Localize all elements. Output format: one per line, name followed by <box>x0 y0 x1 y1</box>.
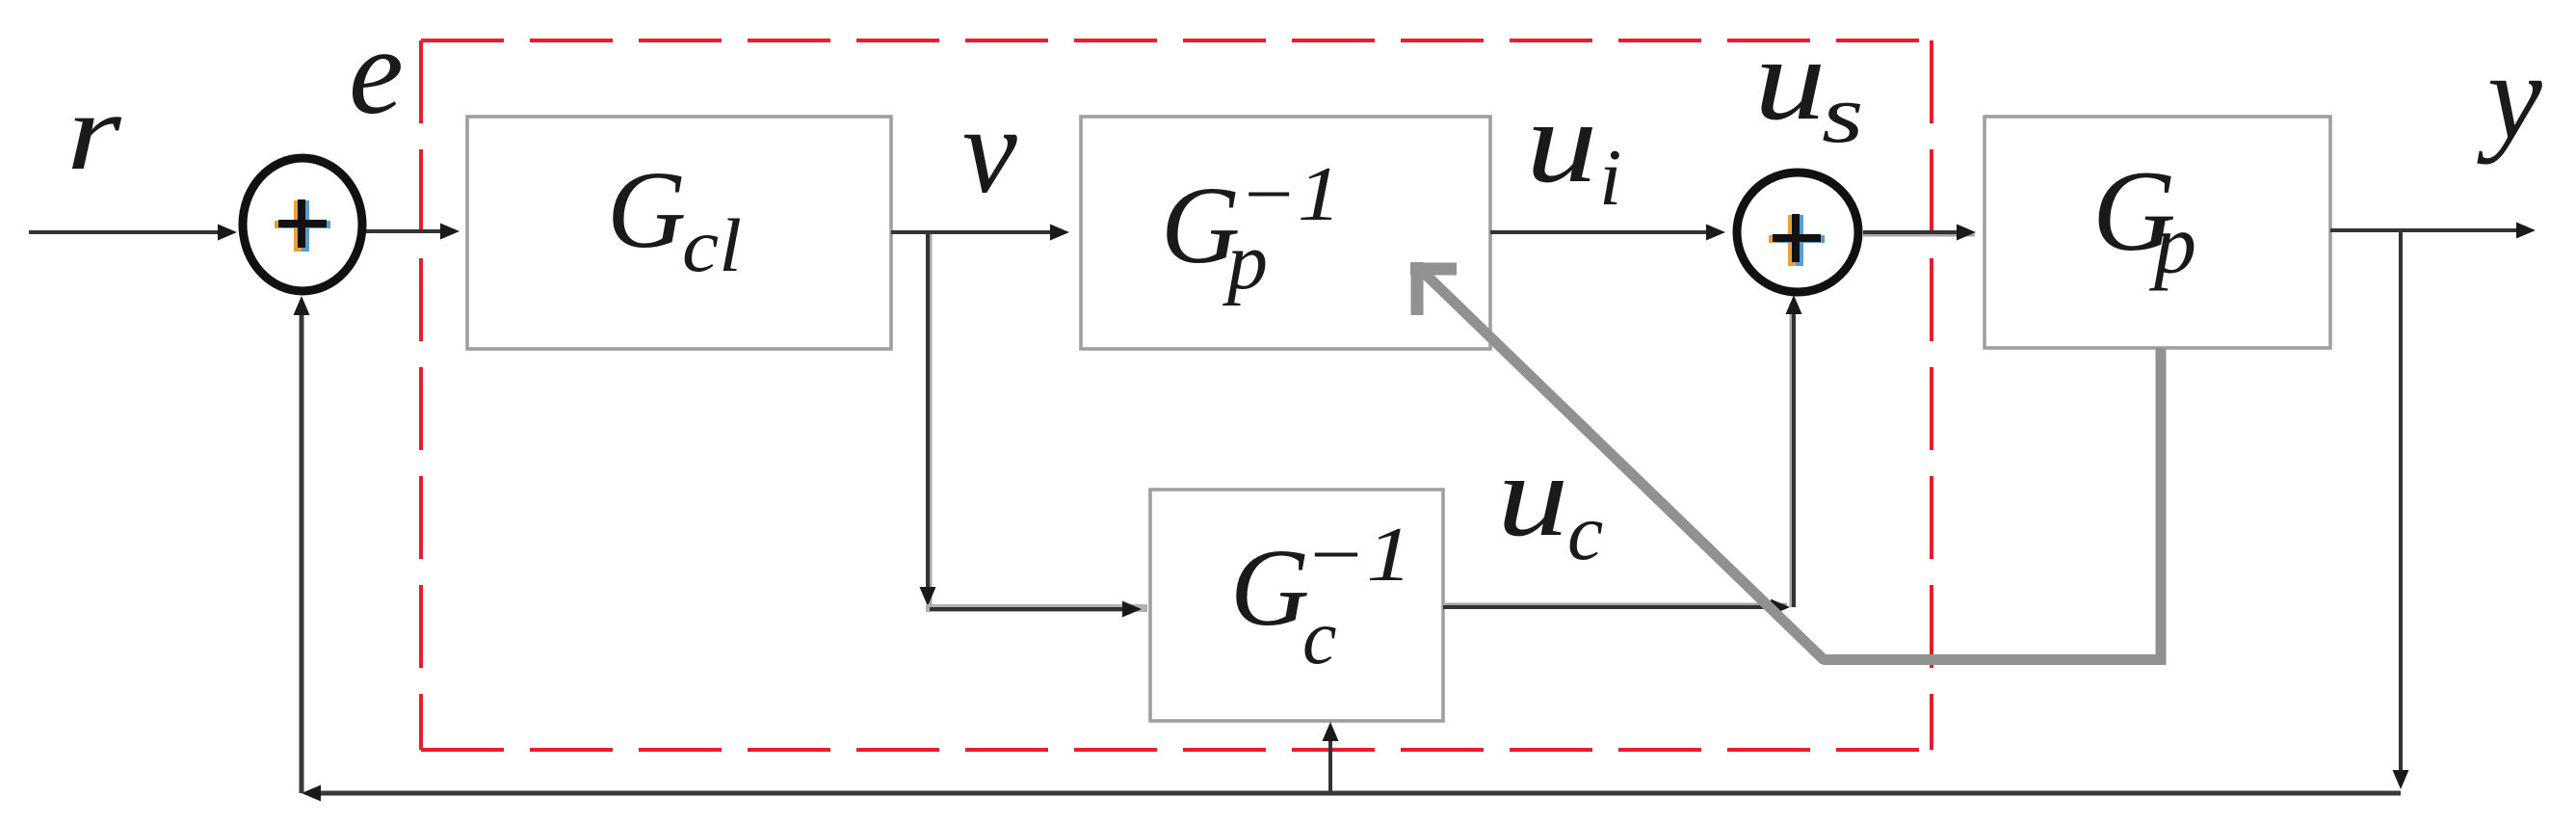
red dashed boundary (inverse-model region) <box>421 40 1932 750</box>
svg-text:c: c <box>1567 488 1603 577</box>
wire uc up to S2 <box>1786 295 1802 607</box>
label u_c <box>1497 431 1603 577</box>
svg-text:y: y <box>2477 28 2542 165</box>
svg-text:G: G <box>1230 526 1309 649</box>
wire feedback up to Gc inverse <box>1323 722 1339 791</box>
svg-text:p: p <box>2148 199 2196 292</box>
svg-text:i: i <box>1599 133 1621 223</box>
wire y feedback down <box>2393 230 2409 789</box>
wire v to Gc inverse <box>926 601 1147 618</box>
wire S2 to Gp <box>1863 225 1976 241</box>
block Gcl <box>467 117 891 349</box>
svg-text:p: p <box>1222 217 1268 306</box>
wire S1 to Gcl <box>366 224 460 240</box>
label r <box>66 71 122 193</box>
wire feedback up to S1 <box>294 296 310 793</box>
wire Gcl to Gp inverse <box>891 225 1069 241</box>
wire v branch down <box>920 232 936 606</box>
svg-text:u: u <box>1497 431 1568 560</box>
svg-text:cl: cl <box>682 203 742 287</box>
wire uc from Gc inverse <box>1443 599 1790 616</box>
svg-text:G: G <box>607 148 686 271</box>
gray adaptation path from Gp to Gp inverse <box>1410 262 2167 665</box>
wire r input <box>29 225 237 241</box>
svg-text:c: c <box>1302 596 1337 680</box>
summing junction S2 <box>1737 173 1858 292</box>
svg-text:e: e <box>349 3 404 140</box>
summing junction S1 <box>243 158 362 291</box>
wire Gp output y <box>2330 223 2536 239</box>
svg-text:s: s <box>1822 67 1864 160</box>
wire feedback bottom <box>302 785 2401 802</box>
wire ui to S2 <box>1490 225 1725 241</box>
svg-text:v: v <box>962 82 1017 219</box>
label u_s <box>1754 14 1864 160</box>
svg-text:−1: −1 <box>1304 513 1412 598</box>
svg-text:u: u <box>1754 14 1826 144</box>
svg-text:u: u <box>1526 77 1597 206</box>
block Gp inverse <box>1081 117 1490 349</box>
block Gp <box>1985 117 2330 348</box>
block Gc inverse <box>1150 490 1443 721</box>
label u_i <box>1526 77 1621 223</box>
svg-text:r: r <box>66 71 122 193</box>
